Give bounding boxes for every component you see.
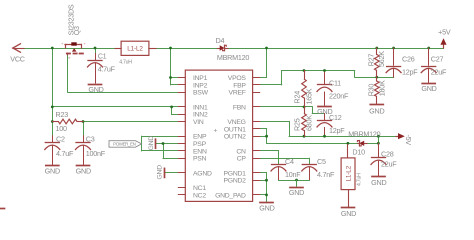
- svg-text:C1: C1: [98, 52, 107, 61]
- svg-text:+: +: [214, 127, 218, 134]
- svg-text:GND: GND: [369, 107, 384, 116]
- svg-text:PSP: PSP: [193, 141, 207, 148]
- svg-text:OUTN1: OUTN1: [224, 126, 246, 133]
- svg-text:C3: C3: [86, 134, 95, 143]
- svg-text:BSW: BSW: [193, 90, 209, 97]
- svg-text:INP1: INP1: [193, 75, 208, 82]
- svg-text:C28: C28: [381, 150, 394, 159]
- svg-text:VIN: VIN: [193, 119, 204, 126]
- svg-text:NC2: NC2: [193, 192, 206, 199]
- svg-text:D4: D4: [216, 36, 225, 45]
- svg-text:NC1: NC1: [193, 185, 206, 192]
- svg-text:VREF: VREF: [229, 90, 246, 97]
- svg-text:FBP: FBP: [233, 82, 246, 89]
- svg-text:R27: R27: [366, 54, 375, 67]
- svg-text:L1-L2: L1-L2: [345, 165, 352, 181]
- svg-text:-5V: -5V: [404, 135, 413, 146]
- svg-text:165K: 165K: [305, 88, 314, 104]
- svg-text:C4: C4: [285, 157, 294, 166]
- svg-text:4.7uH: 4.7uH: [119, 59, 132, 65]
- svg-text:PGND2: PGND2: [224, 178, 247, 185]
- svg-text:VNEG: VNEG: [227, 119, 245, 126]
- svg-text:MBRM120: MBRM120: [217, 53, 249, 62]
- svg-text:CP: CP: [237, 156, 247, 163]
- svg-text:GND: GND: [421, 84, 436, 93]
- svg-text:GND: GND: [259, 203, 274, 212]
- svg-text:GND_PAD: GND_PAD: [215, 192, 246, 199]
- svg-text:POWER_EN: POWER_EN: [113, 142, 135, 147]
- svg-text:ENN: ENN: [193, 148, 207, 155]
- svg-text:+5V: +5V: [438, 27, 451, 36]
- svg-text:PSN: PSN: [193, 156, 207, 163]
- svg-text:100nF: 100nF: [86, 149, 106, 158]
- svg-text:4.7uH: 4.7uH: [356, 173, 362, 186]
- svg-text:L1-L2: L1-L2: [127, 46, 143, 53]
- svg-text:R25: R25: [293, 118, 302, 131]
- svg-text:4.7nF: 4.7nF: [317, 170, 335, 179]
- svg-text:R30: R30: [366, 84, 375, 97]
- svg-text:D10: D10: [352, 147, 365, 156]
- svg-text:INN2: INN2: [193, 112, 208, 119]
- svg-text:C5: C5: [317, 157, 326, 166]
- svg-text:INN1: INN1: [193, 104, 208, 111]
- svg-text:GND: GND: [341, 209, 356, 218]
- svg-text:22uF: 22uF: [381, 159, 397, 168]
- svg-text:GND: GND: [88, 85, 103, 94]
- svg-text:VCC: VCC: [10, 54, 24, 63]
- svg-text:OUTN2: OUTN2: [224, 134, 246, 141]
- svg-text:INP2: INP2: [193, 82, 208, 89]
- svg-text:GND: GND: [289, 188, 304, 197]
- svg-text:GND: GND: [157, 165, 164, 180]
- svg-text:4.7uF: 4.7uF: [56, 149, 74, 158]
- svg-text:12pF: 12pF: [402, 68, 418, 77]
- svg-text:C12: C12: [329, 113, 342, 122]
- svg-text:10nF: 10nF: [285, 170, 301, 179]
- svg-text:GND: GND: [45, 166, 60, 175]
- svg-text:Q3: Q3: [72, 26, 81, 35]
- svg-text:GND: GND: [76, 166, 91, 175]
- svg-text:220nF: 220nF: [329, 92, 349, 101]
- svg-text:R24: R24: [293, 91, 302, 104]
- svg-text:MBRM120: MBRM120: [348, 130, 380, 139]
- svg-text:680K: 680K: [305, 115, 314, 131]
- svg-text:CN: CN: [236, 148, 246, 155]
- svg-text:22uF: 22uF: [431, 68, 447, 77]
- svg-text:C2: C2: [56, 134, 65, 143]
- svg-text:C11: C11: [329, 79, 341, 88]
- svg-text:4.7uF: 4.7uF: [98, 65, 116, 74]
- svg-text:ENP: ENP: [193, 134, 207, 141]
- svg-text:FBN: FBN: [233, 104, 246, 111]
- svg-text:AGND: AGND: [193, 170, 212, 177]
- svg-text:VPOS: VPOS: [228, 75, 247, 82]
- svg-text:100: 100: [56, 124, 67, 133]
- svg-text:C27: C27: [431, 54, 444, 63]
- svg-text:C26: C26: [402, 54, 415, 63]
- svg-text:GND: GND: [371, 178, 386, 187]
- svg-text:180K: 180K: [377, 80, 386, 96]
- svg-text:R23: R23: [56, 110, 69, 119]
- svg-text:PGND1: PGND1: [224, 170, 247, 177]
- svg-text:12pF: 12pF: [329, 126, 345, 135]
- svg-text:GND: GND: [148, 136, 155, 151]
- svg-text:562K: 562K: [377, 51, 386, 67]
